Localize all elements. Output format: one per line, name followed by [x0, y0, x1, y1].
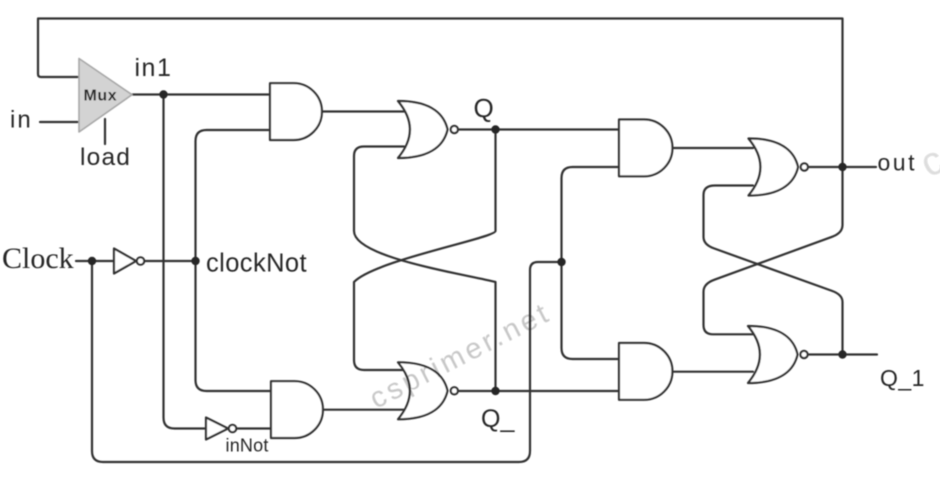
wire cross master: node Q down to NOR2 upper input — [354, 130, 496, 371]
wire NOR2 output to node Q_ and right bottom AND lower input — [459, 390, 620, 392]
bubble NOR4 — [800, 351, 807, 358]
svg-text:out: out — [878, 150, 917, 176]
wire right AND4 output to NOR4 — [673, 371, 754, 373]
nor gate NOR1 (output Q) — [398, 101, 448, 158]
node slave clock junction dot — [557, 258, 565, 266]
svg-text:inNot: inNot — [226, 436, 269, 456]
wire NOR3 output to out node and label — [808, 166, 876, 168]
and gate AND1 (master set) — [270, 83, 322, 140]
node Q junction dot — [491, 125, 499, 133]
wire slave clock node up to right top AND lower input — [562, 167, 620, 262]
wire Clock to inverter — [76, 260, 114, 262]
wire cross slave: out node down to NOR4 upper input — [704, 167, 843, 334]
svg-text:in1: in1 — [135, 54, 173, 82]
svg-text:load: load — [80, 144, 131, 171]
wire clockNot vertical: top AND lower input down to bottom AND upper input — [196, 130, 272, 391]
nor gate NOR2 (output Q_) — [398, 362, 448, 419]
wire right AND3 output to NOR3 — [673, 147, 754, 149]
svg-text:in: in — [10, 107, 33, 134]
node Q_1 junction dot — [838, 350, 846, 358]
wire feedback: out node up, along top, down to Mux top input — [38, 19, 843, 168]
and gate AND2 (master reset) — [271, 381, 323, 438]
wire Clock branch down, bottom rail, riser up to slave clock node — [92, 261, 562, 462]
nor gate NOR3 (output out) — [749, 139, 799, 196]
node out junction dot — [838, 163, 846, 171]
wire Mux output to AND1 (node in1) — [132, 93, 270, 95]
node Clock junction dot — [88, 257, 96, 265]
node Q_ junction dot — [491, 387, 499, 395]
svg-text:c: c — [913, 136, 940, 186]
wire load stub — [104, 119, 106, 144]
wire in1 vertical down to inNot — [164, 95, 207, 429]
nor gate NOR4 (output Q_1) — [748, 326, 798, 383]
svg-text:Clock: Clock — [2, 242, 74, 275]
wire AND2 output to NOR2 lower input — [323, 409, 404, 411]
bubble inNot — [229, 425, 236, 432]
wire inNot output to AND2 — [237, 427, 272, 429]
and gate AND3 (slave set) — [619, 120, 672, 177]
bubble NOR3 — [801, 163, 808, 170]
wire slave clock node down to right bottom AND upper input — [562, 262, 620, 359]
wire NOR4 output to node Q_1 and label — [808, 353, 878, 355]
bubble NOR2 — [451, 387, 458, 394]
svg-text:clockNot: clockNot — [206, 250, 307, 278]
wire cross slave: NOR3 lower input to node Q_1 — [704, 186, 843, 355]
mux Mux — [79, 59, 132, 133]
and gate AND4 (slave reset) — [619, 343, 672, 400]
node in1 junction dot — [159, 90, 167, 98]
wire in to Mux — [40, 121, 78, 123]
wire AND1 output to NOR1 — [322, 110, 404, 112]
svg-text:csprimer.net: csprimer.net — [365, 296, 557, 415]
bubble NOR1 — [451, 126, 458, 133]
wire NOR1 output to node Q and to right AND top input — [459, 128, 620, 130]
wire inverter output to clockNot node — [145, 260, 196, 262]
svg-text:Q: Q — [474, 93, 494, 123]
wire cross master: NOR1 lower input to node Q_ — [354, 147, 496, 392]
inverter inNot — [206, 418, 228, 440]
svg-text:Q_1: Q_1 — [880, 365, 925, 391]
inverter clock NOT — [114, 249, 136, 274]
svg-text:Q_: Q_ — [481, 405, 515, 433]
bubble clock NOT — [137, 257, 144, 264]
svg-text:Mux: Mux — [84, 88, 118, 105]
node clockNot junction dot — [191, 257, 199, 265]
